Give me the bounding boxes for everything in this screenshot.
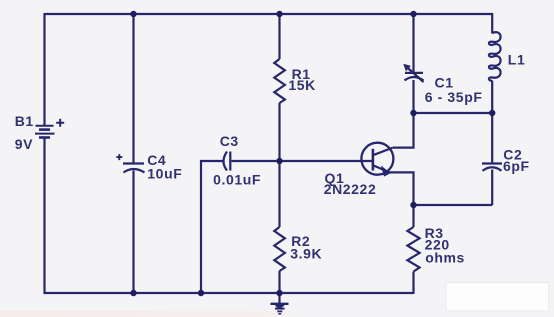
wire: R3 top lead (412, 205, 414, 227)
wire: L1 bottom to C2 (491, 81, 493, 164)
wire: bottom rail (44, 292, 414, 294)
wire: C2 to emitter node (414, 204, 493, 206)
resistor R1 (274, 59, 285, 103)
wire: R1 to base node (278, 103, 280, 161)
resistor R3 (407, 227, 419, 272)
svg-text:6 - 35pF: 6 - 35pF (425, 89, 483, 105)
junction node: emitter/R3 (410, 202, 416, 208)
junction node: base (276, 158, 282, 164)
junction node: bottom ground (276, 290, 282, 296)
wire: C3 left leg (200, 160, 202, 293)
wire: R2 bottom lead (278, 271, 280, 293)
capacitor C3 (224, 152, 231, 171)
svg-text:9V: 9V (15, 136, 33, 152)
transistor Q1 (361, 143, 393, 176)
wire: right rail top (L1 top lead) (491, 13, 493, 34)
svg-text:15K: 15K (288, 77, 315, 93)
svg-text:3.9K: 3.9K (290, 245, 322, 261)
inductor L1 (489, 32, 501, 80)
wire: R3 bottom lead (412, 272, 414, 295)
junction node: bottom C4 (130, 290, 136, 296)
capacitor C4 (116, 154, 144, 172)
wire: C1 branch top lead (412, 14, 414, 72)
svg-text:L1: L1 (508, 52, 526, 68)
capacitor C2 (482, 164, 502, 171)
wire: C3 to transistor base (232, 160, 373, 162)
junction node: top C4 (130, 11, 136, 17)
battery B1 (35, 119, 64, 138)
wire: C4 branch top lead (132, 14, 134, 163)
wire: top rail (45, 13, 493, 15)
ground (271, 293, 289, 314)
resistor R2 (274, 227, 285, 271)
svg-text:B1: B1 (15, 113, 34, 129)
svg-text:2N2222: 2N2222 (324, 181, 377, 197)
wire: C3 left lead (200, 160, 223, 162)
svg-text:C3: C3 (220, 133, 239, 149)
svg-text:ohms: ohms (425, 249, 465, 265)
wire: C4 branch bottom lead (132, 171, 134, 294)
wire: base node to R2 (278, 161, 280, 227)
wire: emitter lead (390, 172, 414, 205)
svg-text:10uF: 10uF (147, 165, 182, 181)
junction node: L1 bottom (489, 110, 495, 116)
wire: R1 branch top lead (278, 14, 280, 59)
junction node: C1 bottom (410, 110, 416, 116)
wire: left rail upper (battery top lead) (43, 13, 45, 125)
wire: collector lead (393, 113, 414, 148)
junction node: bottom C3 leg (198, 290, 204, 296)
svg-text:6pF: 6pF (503, 158, 530, 174)
junction node: top R1 (276, 11, 282, 17)
wire: left rail lower (battery bottom lead) (43, 139, 45, 295)
variable capacitor C1 (404, 64, 424, 82)
junction node: top C1 (410, 11, 416, 17)
svg-text:0.01uF: 0.01uF (213, 172, 261, 188)
wire: C1 bottom lead (412, 80, 414, 113)
wire: tank link (C1 bottom to L1 bottom) (414, 112, 493, 114)
wire: C2 bottom lead (491, 170, 493, 206)
